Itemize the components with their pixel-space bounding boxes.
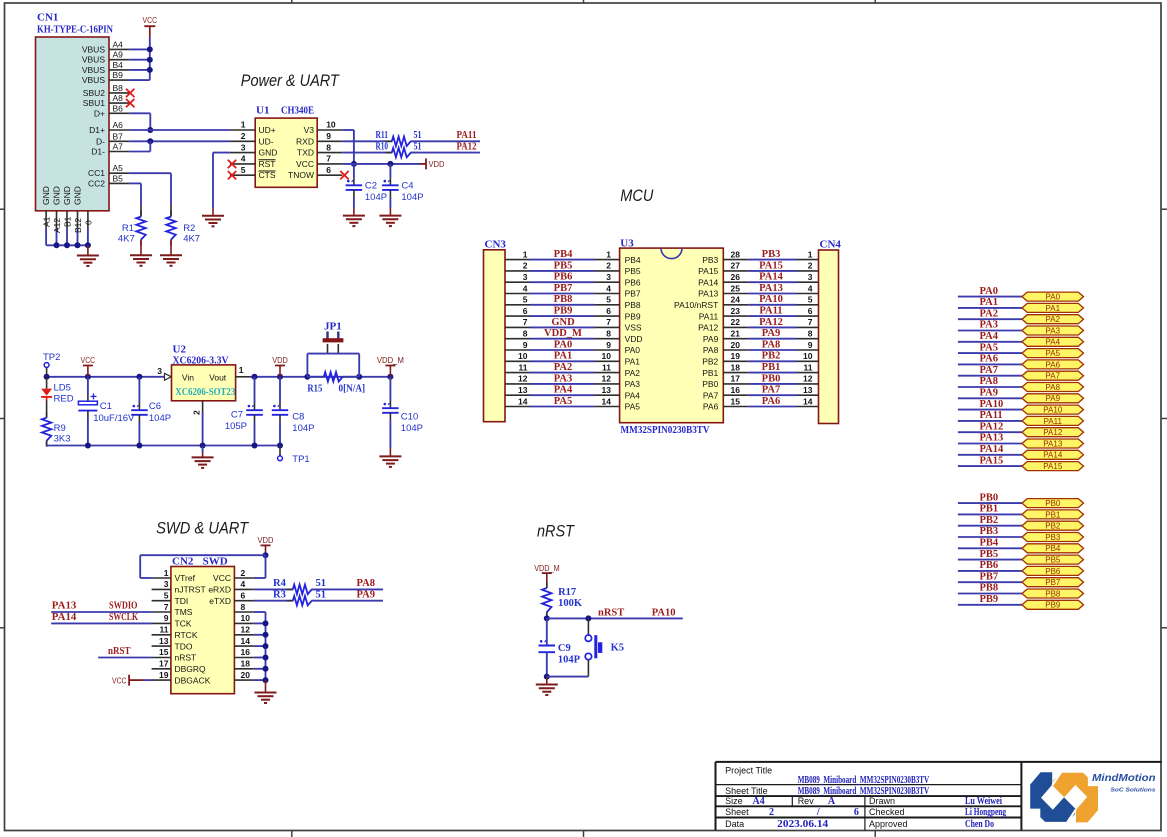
svg-text:11: 11 <box>602 362 611 372</box>
svg-text:R2: R2 <box>183 223 195 234</box>
svg-text:C2: C2 <box>365 181 377 192</box>
svg-text:PA2: PA2 <box>554 362 572 373</box>
svg-text:D+: D+ <box>94 108 105 118</box>
svg-text:C9: C9 <box>558 643 571 654</box>
svg-text:0[N/A]: 0[N/A] <box>339 384 366 395</box>
svg-text:A6: A6 <box>113 120 124 130</box>
svg-text:19: 19 <box>731 351 741 361</box>
svg-text:PB8: PB8 <box>625 300 641 310</box>
svg-text:R11: R11 <box>376 130 389 141</box>
svg-text:VCC: VCC <box>143 15 158 25</box>
svg-text:A5: A5 <box>113 163 124 173</box>
svg-text:10: 10 <box>326 120 336 130</box>
svg-text:GND: GND <box>551 317 575 328</box>
svg-text:PA12: PA12 <box>759 317 783 328</box>
svg-text:UD+: UD+ <box>259 125 276 135</box>
svg-text:25: 25 <box>731 283 741 293</box>
svg-text:PA8: PA8 <box>980 376 998 387</box>
svg-text:PA10: PA10 <box>1043 406 1063 415</box>
svg-text:R15: R15 <box>307 384 322 395</box>
svg-text:VCC: VCC <box>112 676 127 686</box>
svg-text:DBGACK: DBGACK <box>175 675 211 685</box>
svg-text:1: 1 <box>164 568 169 578</box>
svg-text:11: 11 <box>804 362 813 372</box>
svg-text:PB0: PB0 <box>762 373 781 384</box>
svg-text:2023.06.14: 2023.06.14 <box>777 819 828 830</box>
svg-text:PA10: PA10 <box>980 399 1004 410</box>
svg-text:Drawn: Drawn <box>869 796 895 806</box>
svg-text:PA6: PA6 <box>703 402 719 412</box>
svg-text:PA14: PA14 <box>1043 451 1063 460</box>
svg-text:PA11: PA11 <box>980 410 1003 421</box>
svg-text:10: 10 <box>241 613 251 623</box>
svg-text:Vin: Vin <box>182 372 194 382</box>
svg-text:PA7: PA7 <box>762 385 780 396</box>
svg-text:PA13: PA13 <box>980 433 1004 444</box>
svg-text:2: 2 <box>523 261 528 271</box>
svg-text:PB4: PB4 <box>625 255 641 265</box>
svg-text:VBUS: VBUS <box>82 75 105 85</box>
svg-text:SWD & UART: SWD & UART <box>156 519 249 538</box>
svg-text:PB3: PB3 <box>980 526 999 537</box>
svg-text:7: 7 <box>606 317 611 327</box>
svg-text:5: 5 <box>808 295 813 305</box>
svg-text:PA11: PA11 <box>699 311 719 321</box>
svg-text:PB2: PB2 <box>762 351 781 362</box>
svg-text:A1: A1 <box>42 216 52 227</box>
svg-text:1: 1 <box>241 120 246 130</box>
svg-text:CN3: CN3 <box>485 239 507 251</box>
svg-text:PB9: PB9 <box>625 311 641 321</box>
svg-text:3: 3 <box>523 272 528 282</box>
svg-text:PA0: PA0 <box>625 345 641 355</box>
svg-text:20: 20 <box>731 340 741 350</box>
svg-text:Project Title: Project Title <box>725 766 772 776</box>
svg-text:19: 19 <box>159 670 169 680</box>
svg-text:Vout: Vout <box>209 372 227 382</box>
svg-text:PA0: PA0 <box>980 286 998 297</box>
svg-text:14: 14 <box>518 396 528 406</box>
svg-text:PB6: PB6 <box>554 272 573 283</box>
svg-text:PA1: PA1 <box>554 351 572 362</box>
svg-text:PB3: PB3 <box>702 255 718 265</box>
svg-text:nRST: nRST <box>598 607 624 618</box>
svg-text:17: 17 <box>159 659 169 669</box>
svg-text:100K: 100K <box>558 598 583 609</box>
svg-text:C4: C4 <box>401 181 413 192</box>
svg-text:JP1: JP1 <box>324 321 342 333</box>
svg-text:C8: C8 <box>292 412 304 423</box>
svg-text:PA13: PA13 <box>759 283 783 294</box>
svg-text:TMS: TMS <box>175 607 193 617</box>
svg-text:PB9: PB9 <box>980 594 999 605</box>
svg-text:105P: 105P <box>225 421 247 432</box>
svg-text:PA2: PA2 <box>625 368 641 378</box>
svg-text:3K3: 3K3 <box>54 434 71 445</box>
svg-text:10: 10 <box>602 351 612 361</box>
svg-text:PB4: PB4 <box>554 249 573 260</box>
svg-text:6: 6 <box>326 165 331 175</box>
svg-text:PB8: PB8 <box>980 583 999 594</box>
svg-text:PB1: PB1 <box>702 368 718 378</box>
svg-text:C7: C7 <box>231 410 243 421</box>
svg-text:4: 4 <box>606 283 611 293</box>
svg-text:PA14: PA14 <box>52 612 77 623</box>
svg-text:TNOW: TNOW <box>288 170 314 180</box>
svg-text:11: 11 <box>160 625 169 635</box>
svg-text:VDD: VDD <box>258 535 274 545</box>
svg-text:PA10: PA10 <box>759 294 783 305</box>
svg-text:PA11: PA11 <box>457 130 477 141</box>
svg-text:PA9: PA9 <box>357 589 375 600</box>
svg-text:23: 23 <box>731 306 741 316</box>
svg-text:D1-: D1- <box>91 147 105 157</box>
svg-text:PA13: PA13 <box>698 289 718 299</box>
svg-text:4: 4 <box>808 283 813 293</box>
svg-text:18: 18 <box>241 659 251 669</box>
svg-text:PA3: PA3 <box>554 373 572 384</box>
svg-text:13: 13 <box>602 385 612 395</box>
svg-text:B1: B1 <box>63 216 73 227</box>
svg-text:R4: R4 <box>273 578 287 589</box>
svg-text:PB7: PB7 <box>625 289 641 299</box>
svg-text:CC2: CC2 <box>88 178 105 188</box>
svg-text:A12: A12 <box>52 218 62 233</box>
svg-text:K5: K5 <box>611 643 624 654</box>
svg-text:LD5: LD5 <box>54 382 71 393</box>
svg-text:13: 13 <box>159 636 169 646</box>
svg-text:PB2: PB2 <box>702 357 718 367</box>
svg-text:104P: 104P <box>365 192 387 203</box>
svg-text:2: 2 <box>241 131 246 141</box>
svg-text:Power & UART: Power & UART <box>241 71 340 90</box>
svg-text:PA0: PA0 <box>554 339 572 350</box>
svg-text:/: / <box>816 807 820 818</box>
svg-text:PA8: PA8 <box>357 578 375 589</box>
svg-text:MCU: MCU <box>620 186 654 205</box>
svg-text:PA1: PA1 <box>980 297 998 308</box>
svg-text:12: 12 <box>241 625 251 635</box>
svg-text:PA0: PA0 <box>1046 293 1061 302</box>
svg-text:4: 4 <box>241 154 246 164</box>
svg-text:PA5: PA5 <box>980 342 998 353</box>
svg-text:14: 14 <box>241 636 251 646</box>
svg-text:5: 5 <box>523 295 528 305</box>
svg-text:PA14: PA14 <box>698 277 718 287</box>
svg-text:PA9: PA9 <box>762 328 780 339</box>
svg-text:5: 5 <box>606 295 611 305</box>
svg-text:10uF/16V: 10uF/16V <box>93 413 135 424</box>
svg-text:VBUS: VBUS <box>82 55 105 65</box>
svg-text:B12: B12 <box>73 218 83 233</box>
svg-text:7: 7 <box>523 317 528 327</box>
svg-text:PA7: PA7 <box>980 365 998 376</box>
svg-text:PB4: PB4 <box>1045 544 1061 553</box>
svg-text:Checked: Checked <box>869 807 905 817</box>
svg-text:3: 3 <box>241 142 246 152</box>
svg-text:PA13: PA13 <box>1043 439 1063 448</box>
svg-text:GND: GND <box>73 186 83 205</box>
svg-text:10: 10 <box>803 351 813 361</box>
svg-text:104P: 104P <box>401 192 423 203</box>
svg-text:27: 27 <box>731 261 741 271</box>
svg-text:104P: 104P <box>149 413 171 424</box>
svg-text:VDD: VDD <box>429 159 445 169</box>
svg-text:A: A <box>828 796 836 807</box>
svg-text:VDD: VDD <box>272 355 288 365</box>
svg-text:104P: 104P <box>401 423 423 434</box>
svg-text:PB7: PB7 <box>980 571 999 582</box>
svg-text:104P: 104P <box>558 655 581 666</box>
svg-text:B8: B8 <box>113 83 124 93</box>
svg-text:8: 8 <box>241 602 246 612</box>
svg-text:SWDIO: SWDIO <box>109 601 138 612</box>
svg-text:VCC: VCC <box>81 355 96 365</box>
svg-text:PA9: PA9 <box>703 334 719 344</box>
svg-text:8: 8 <box>808 329 813 339</box>
svg-text:24: 24 <box>731 295 741 305</box>
svg-text:PA6: PA6 <box>980 354 998 365</box>
svg-text:VCC: VCC <box>213 573 231 583</box>
svg-text:3: 3 <box>606 272 611 282</box>
svg-text:VCC: VCC <box>296 159 314 169</box>
svg-text:UD-: UD- <box>259 136 274 146</box>
svg-text:3: 3 <box>164 579 169 589</box>
svg-text:104P: 104P <box>292 423 314 434</box>
svg-text:PA6: PA6 <box>762 396 780 407</box>
svg-text:Rev: Rev <box>798 796 815 806</box>
svg-text:4K7: 4K7 <box>183 234 200 245</box>
svg-text:VDD_M: VDD_M <box>534 563 560 573</box>
svg-text:28: 28 <box>731 249 741 259</box>
svg-text:VDD_M: VDD_M <box>544 328 582 339</box>
svg-text:PA8: PA8 <box>762 339 780 350</box>
svg-text:PB7: PB7 <box>1045 578 1061 587</box>
svg-text:11: 11 <box>519 362 528 372</box>
svg-text:PB4: PB4 <box>980 538 999 549</box>
svg-text:PA13: PA13 <box>52 601 77 612</box>
svg-text:9: 9 <box>326 131 331 141</box>
svg-text:SBU2: SBU2 <box>83 88 105 98</box>
svg-text:PB0: PB0 <box>1045 499 1061 508</box>
svg-text:2: 2 <box>808 261 813 271</box>
svg-text:PB5: PB5 <box>1045 556 1061 565</box>
svg-text:TP1: TP1 <box>292 454 309 465</box>
svg-text:A4: A4 <box>753 796 765 807</box>
svg-text:4: 4 <box>523 283 528 293</box>
svg-text:51: 51 <box>316 578 327 589</box>
svg-text:D-: D- <box>96 136 105 146</box>
svg-text:PB2: PB2 <box>980 515 999 526</box>
svg-text:CN1: CN1 <box>37 12 58 24</box>
svg-text:MB089_Miniboard_MM32SPIN0230B3: MB089_Miniboard_MM32SPIN0230B3TV <box>798 786 930 797</box>
svg-text:PA14: PA14 <box>980 444 1004 455</box>
svg-text:PB1: PB1 <box>980 504 999 515</box>
svg-text:VDD: VDD <box>625 334 643 344</box>
svg-text:TCK: TCK <box>175 619 192 629</box>
svg-text:PA4: PA4 <box>980 331 999 342</box>
svg-text:12: 12 <box>602 374 612 384</box>
svg-text:22: 22 <box>731 317 741 327</box>
svg-text:4: 4 <box>241 579 246 589</box>
svg-text:MB089_Miniboard_MM32SPIN0230B3: MB089_Miniboard_MM32SPIN0230B3TV <box>798 775 930 786</box>
svg-text:A4: A4 <box>113 39 124 49</box>
svg-text:9: 9 <box>523 340 528 350</box>
svg-text:2: 2 <box>241 568 246 578</box>
svg-text:U1: U1 <box>256 105 269 117</box>
svg-text:PB6: PB6 <box>1045 567 1061 576</box>
svg-text:Sheet: Sheet <box>725 807 749 817</box>
svg-text:PA1: PA1 <box>1046 304 1061 313</box>
svg-text:9: 9 <box>606 340 611 350</box>
svg-text:9: 9 <box>808 340 813 350</box>
svg-text:C6: C6 <box>149 401 161 412</box>
svg-text:R3: R3 <box>273 589 286 600</box>
svg-text:PA3: PA3 <box>980 320 998 331</box>
svg-text:B9: B9 <box>113 70 124 80</box>
svg-text:eTXD: eTXD <box>209 596 231 606</box>
svg-text:PB8: PB8 <box>554 294 573 305</box>
svg-text:1: 1 <box>808 249 813 259</box>
svg-text:GND: GND <box>259 148 278 158</box>
svg-text:C10: C10 <box>401 412 418 423</box>
svg-text:PB2: PB2 <box>1045 522 1061 531</box>
svg-text:VDD_M: VDD_M <box>377 355 404 365</box>
svg-text:PA5: PA5 <box>1046 349 1061 358</box>
svg-text:16: 16 <box>731 385 741 395</box>
svg-text:Sheet Title: Sheet Title <box>725 786 768 796</box>
svg-text:SoC Solutions: SoC Solutions <box>1111 788 1156 794</box>
svg-text:6: 6 <box>241 591 246 601</box>
svg-text:51: 51 <box>414 130 422 141</box>
svg-text:PA12: PA12 <box>1043 428 1063 437</box>
svg-text:PA8: PA8 <box>703 345 719 355</box>
svg-text:GND: GND <box>62 186 72 205</box>
svg-text:PA5: PA5 <box>554 396 572 407</box>
svg-text:PA9: PA9 <box>980 388 998 399</box>
svg-text:VSS: VSS <box>625 323 642 333</box>
svg-text:RED: RED <box>54 394 74 405</box>
svg-text:nRST: nRST <box>108 646 131 657</box>
svg-text:7: 7 <box>164 602 169 612</box>
svg-text:1: 1 <box>523 249 528 259</box>
svg-text:PA11: PA11 <box>759 306 782 317</box>
svg-text:PB6: PB6 <box>980 560 999 571</box>
svg-text:PA3: PA3 <box>1046 326 1061 335</box>
svg-text:MindMotion: MindMotion <box>1092 773 1156 784</box>
svg-text:GND: GND <box>52 186 62 205</box>
svg-text:CTS: CTS <box>259 170 276 180</box>
svg-text:B6: B6 <box>113 103 124 113</box>
svg-text:SWCLK: SWCLK <box>109 612 139 623</box>
svg-text:7: 7 <box>808 317 813 327</box>
svg-text:13: 13 <box>518 385 528 395</box>
svg-text:6: 6 <box>808 306 813 316</box>
svg-text:VBUS: VBUS <box>82 44 105 54</box>
svg-text:A9: A9 <box>113 50 124 60</box>
svg-text:PB9: PB9 <box>1045 601 1061 610</box>
svg-text:B5: B5 <box>113 173 124 183</box>
svg-text:15: 15 <box>159 647 169 657</box>
svg-text:6: 6 <box>606 306 611 316</box>
svg-text:PA4: PA4 <box>625 390 641 400</box>
svg-text:Approved: Approved <box>869 819 908 829</box>
svg-text:9: 9 <box>164 613 169 623</box>
svg-text:PB1: PB1 <box>1045 510 1061 519</box>
svg-text:nJTRST: nJTRST <box>175 585 206 595</box>
svg-text:C1: C1 <box>100 401 112 412</box>
svg-text:PA1: PA1 <box>625 357 641 367</box>
svg-text:15: 15 <box>731 396 741 406</box>
svg-text:10: 10 <box>518 351 528 361</box>
svg-text:14: 14 <box>803 396 813 406</box>
svg-text:nRST: nRST <box>537 522 575 541</box>
svg-text:TP2: TP2 <box>43 352 60 363</box>
svg-text:6: 6 <box>523 306 528 316</box>
svg-text:CN4: CN4 <box>820 239 842 251</box>
svg-text:B4: B4 <box>113 60 124 70</box>
svg-text:PA6: PA6 <box>1046 360 1061 369</box>
svg-text:eRXD: eRXD <box>208 585 231 595</box>
svg-text:1: 1 <box>606 249 611 259</box>
svg-text:2: 2 <box>606 261 611 271</box>
svg-text:3: 3 <box>157 366 162 376</box>
svg-text:TDO: TDO <box>175 641 193 651</box>
svg-text:V3: V3 <box>304 125 315 135</box>
svg-text:TDI: TDI <box>175 596 189 606</box>
svg-text:PA12: PA12 <box>457 141 477 152</box>
svg-text:4K7: 4K7 <box>118 234 135 245</box>
svg-text:nRST: nRST <box>175 653 197 663</box>
svg-text:PA7: PA7 <box>703 390 719 400</box>
svg-text:KH-TYPE-C-16PIN: KH-TYPE-C-16PIN <box>37 24 113 36</box>
svg-text:51: 51 <box>414 141 422 152</box>
svg-text:17: 17 <box>731 374 741 384</box>
svg-text:PB3: PB3 <box>762 249 781 260</box>
svg-text:20: 20 <box>241 670 251 680</box>
svg-text:PA14: PA14 <box>759 272 783 283</box>
svg-text:Chen Do: Chen Do <box>965 819 994 830</box>
svg-text:PA7: PA7 <box>1046 372 1061 381</box>
svg-text:R1: R1 <box>122 223 134 234</box>
svg-text:PA4: PA4 <box>554 385 573 396</box>
svg-text:SBU1: SBU1 <box>83 98 105 108</box>
svg-text:PA12: PA12 <box>698 323 718 333</box>
svg-text:PB0: PB0 <box>702 379 718 389</box>
svg-text:PA12: PA12 <box>980 421 1004 432</box>
svg-text:MM32SPIN0230B3TV: MM32SPIN0230B3TV <box>621 424 710 436</box>
svg-text:TXD: TXD <box>297 148 314 158</box>
svg-text:RST: RST <box>259 159 276 169</box>
svg-text:R9: R9 <box>54 423 66 434</box>
svg-text:B7: B7 <box>113 131 124 141</box>
svg-text:DBGRQ: DBGRQ <box>175 664 207 674</box>
svg-text:VBUS: VBUS <box>82 65 105 75</box>
svg-text:PB5: PB5 <box>554 260 573 271</box>
svg-text:Size: Size <box>725 796 743 806</box>
svg-text:12: 12 <box>518 374 528 384</box>
svg-text:PA10/nRST: PA10/nRST <box>674 300 718 310</box>
svg-text:PA2: PA2 <box>980 308 998 319</box>
svg-text:GND: GND <box>41 186 51 205</box>
svg-text:PB0: PB0 <box>980 492 999 503</box>
svg-text:PB9: PB9 <box>554 306 573 317</box>
svg-text:PA5: PA5 <box>625 402 641 412</box>
svg-text:6: 6 <box>854 807 859 818</box>
svg-text:PB5: PB5 <box>625 266 641 276</box>
svg-text:PB5: PB5 <box>980 549 999 560</box>
svg-text:PA8: PA8 <box>1046 383 1061 392</box>
